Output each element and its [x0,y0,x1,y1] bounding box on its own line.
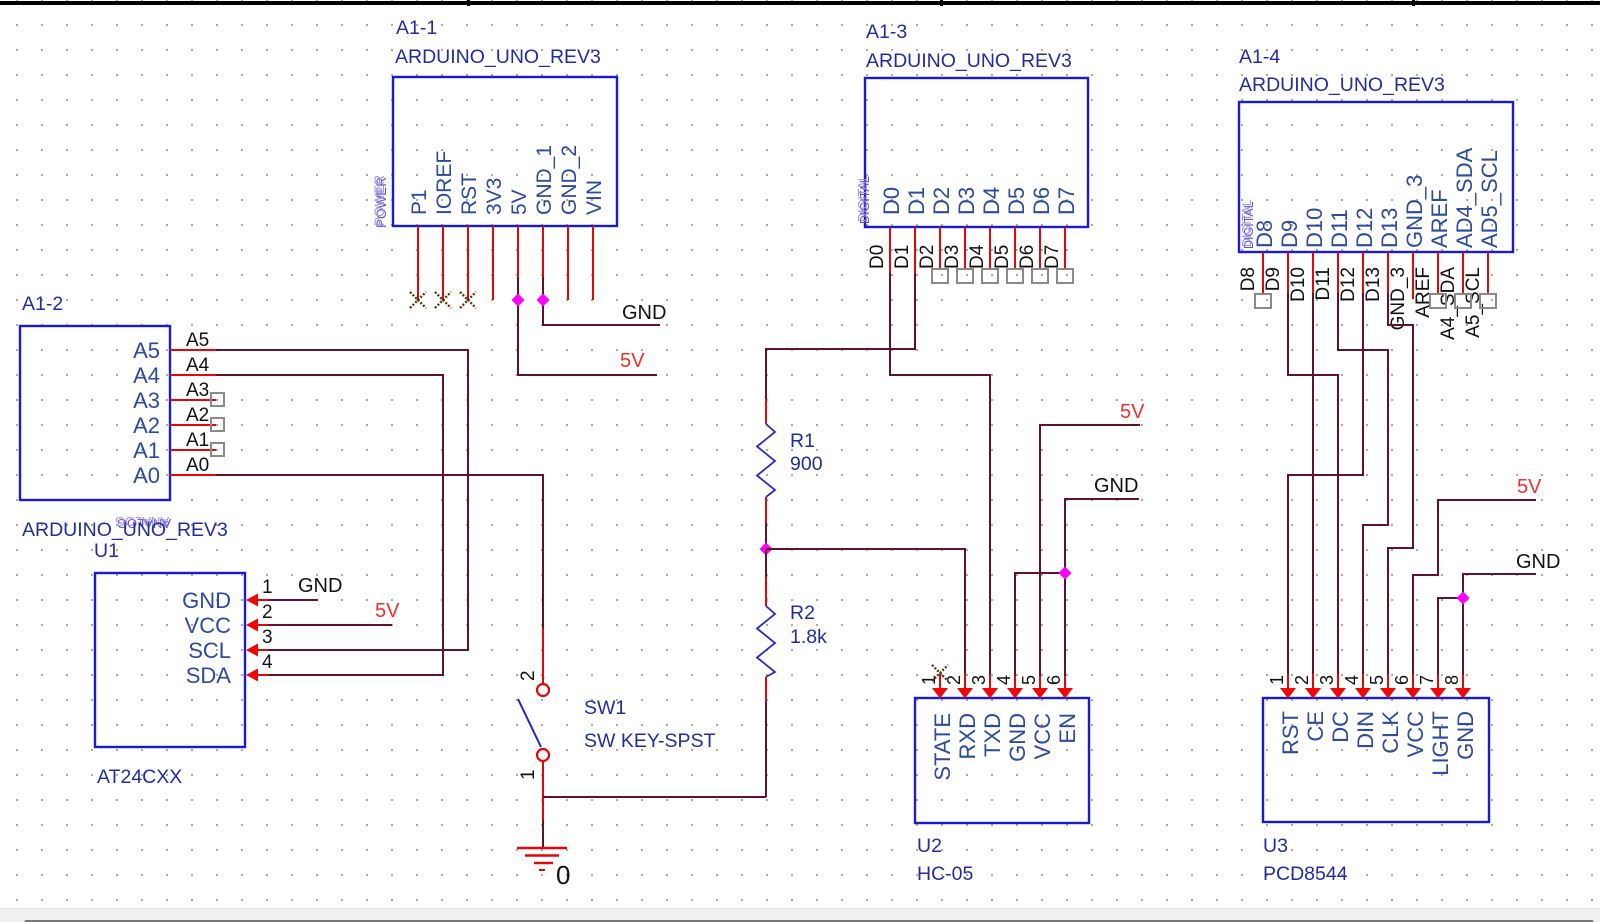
ground net label 0 [556,860,570,890]
svg-text:ARDUINO_UNO_REV3: ARDUINO_UNO_REV3 [866,50,1072,72]
svg-text:2: 2 [262,602,273,623]
A1-4 pin name AD5_SCL [1477,150,1502,248]
switch SW1 lever [518,699,541,747]
svg-text:D4: D4 [979,187,1004,215]
U3 value label PCD8544 [1263,863,1348,885]
U3 pin 5 stub and arrow [1380,674,1396,699]
A1-3 pin name D5 [1004,187,1029,215]
arduino block A1-1 reference label [396,17,437,39]
net label GND at U1 [298,575,342,597]
U2 pin number 6 [1044,675,1064,685]
A1-1 pin stub VIN [592,226,594,300]
A1-3 pin stub D5 [1014,227,1016,268]
svg-text:3V3: 3V3 [483,178,506,215]
svg-text:2: 2 [518,670,539,681]
junction on A1-1 GND_1 pin [537,294,550,307]
U2 pin 5 stub and arrow [1032,674,1048,699]
svg-text:SCL: SCL [188,638,231,663]
svg-text:4: 4 [994,675,1014,685]
svg-text:5V: 5V [1517,476,1542,498]
A1-4 pin stub AD5_SCL [1487,252,1489,293]
U2 pin name RXD [955,713,980,759]
svg-text:POWER: POWER [372,175,387,226]
wire 5V net to U3 VCC [1413,500,1536,676]
svg-text:D13: D13 [1363,267,1384,302]
U1 pin number 2 [262,602,273,623]
svg-text:U1: U1 [94,540,119,562]
svg-text:CLK: CLK [1378,711,1403,754]
A1-2 pin name A5 [133,338,160,363]
svg-text:D7: D7 [1054,187,1079,215]
svg-text:D11: D11 [1313,267,1334,300]
U3 pin name CE [1303,711,1328,742]
A1-4 pin stub D12 [1362,252,1364,293]
svg-text:DIN: DIN [1353,711,1378,749]
svg-text:A5: A5 [186,330,209,351]
net label GND at U2 [1094,475,1138,497]
U1 pin 3 arrow [246,644,268,657]
U3 pin name GND [1453,711,1478,760]
A1-4 pin name D11 [1327,209,1352,248]
U1 pin number 3 [262,627,273,648]
svg-text:D10: D10 [1302,208,1327,248]
A1-3 pin name D6 [1029,187,1054,215]
A1-1 pin name RST [458,173,481,215]
U2 pin 2 stub and arrow [957,674,973,699]
svg-text:D1: D1 [904,187,929,215]
svg-text:PCD8544: PCD8544 [1263,863,1348,885]
arduino block A1-3 reference label [866,21,907,43]
SW1 pin number 1 [518,769,539,780]
A1-1 pin stub GND_2 [567,226,569,300]
U3 pin number 3 [1317,675,1337,685]
A1-4 pin name D8 [1252,220,1277,248]
svg-text:D1: D1 [892,245,913,269]
svg-text:RST: RST [458,173,481,215]
A1-1 pin name GND_1 [533,145,556,215]
svg-text:ARDUINO_UNO_REV3: ARDUINO_UNO_REV3 [22,519,228,541]
svg-text:D12: D12 [1352,208,1377,248]
A1-4 pin name AREF [1427,189,1452,248]
svg-text:GND: GND [182,588,231,613]
U2 pin name VCC [1030,713,1055,760]
A1-3 pin stub D7 [1064,227,1066,268]
U2 pin name STATE [930,713,955,781]
U3 pin 4 stub and arrow [1355,674,1371,699]
U1 pin 4 arrow [246,669,268,682]
net label D10 below A1-4 [1288,267,1309,302]
A1-1 pin stub RST [467,226,469,300]
net label A4_SDA below A1-4 [1438,267,1459,340]
A1-3 pin name D7 [1054,187,1079,215]
A1-4 pin stub D13 [1387,252,1389,293]
A1-1 pin name 5V [508,189,531,215]
svg-text:GND: GND [622,302,666,324]
sheet top border bar [0,1,1600,5]
svg-text:D4: D4 [967,244,988,269]
svg-text:2: 2 [1292,675,1312,685]
resistor R2 bottom lead [765,677,767,797]
R1 value label 900 [790,453,823,475]
wire net D1 from A1-3 to R1 [766,273,915,399]
A1-4 pin stub D9 [1287,252,1289,293]
wire net A5 from A1-2 to U1 SCL [216,350,468,650]
svg-text:5: 5 [1367,675,1387,685]
U1 pin 2 arrow [246,619,268,632]
svg-text:R1: R1 [790,430,815,452]
svg-text:D6: D6 [1017,245,1038,269]
svg-text:AT24CXX: AT24CXX [97,766,182,788]
U3 pin 1 stub and arrow [1280,674,1296,699]
U3 pin number 1 [1267,675,1287,685]
U2 pin number 1 [919,675,939,685]
arduino module A1-1 body [393,77,617,226]
A1-1 pin stub IOREF [442,226,444,300]
svg-text:3: 3 [262,627,273,648]
wire from SW1 pin1 to ground and R2 [543,797,766,847]
A1-3 pin name D1 [904,187,929,215]
wire 5V net from A1-1 5V pin [518,300,657,375]
A1-2 pin name A0 [133,463,160,488]
unconnected square on pin AD4_SDA [1455,294,1471,308]
svg-text:GND: GND [1453,711,1478,760]
arduino block A1-4 reference label [1239,46,1280,68]
svg-text:A4: A4 [133,363,160,388]
A1-4 pin name AD4_SDA [1452,147,1477,248]
svg-text:5V: 5V [1120,401,1145,423]
svg-text:SW1: SW1 [584,697,626,719]
svg-text:GND_3: GND_3 [1388,267,1409,330]
svg-text:2: 2 [944,675,964,685]
svg-text:A5: A5 [133,338,160,363]
A1-2 pin stub A2 [170,424,216,426]
border zone tick 1 [467,0,470,6]
border zone tick 3 [1412,0,1415,6]
A1-3 pin stub D4 [989,227,991,268]
A1-4 pin name GND_3 [1402,175,1427,248]
svg-text:D7: D7 [1042,245,1063,269]
A1-2 pin name A4 [133,363,160,388]
SW1 value label SW KEY-SPST [584,730,716,752]
arduino block A1-1 value label ARDUINO_UNO_REV3 [395,46,601,68]
net label GND near A1-1 [622,302,666,324]
U1 pin name SCL [188,638,231,663]
U3 reference label [1263,835,1288,857]
A1-3 pin stub D3 [964,227,966,268]
A1-4 pin stub AREF [1437,252,1439,293]
A1-4 pin name D9 [1277,220,1302,248]
switch SW1 pin 2 contact [537,684,549,696]
switch SW1 pin 1 stub [542,762,544,797]
net label A1 [186,430,209,451]
wire net A0 from A1-2 to switch SW1 [216,475,543,628]
A1-2 pin stub A4 [170,374,216,376]
A1-2 pin name A2 [133,413,160,438]
U2 pin number 3 [969,675,989,685]
U2 pin 1 stub and arrow [932,674,948,699]
no-connect X on A1-1 pin P1 [410,292,426,308]
svg-text:A1: A1 [186,430,209,451]
net label A5_SCL below A1-4 [1463,267,1484,338]
net label 5V at U1 [375,600,400,622]
wire net D0 from A1-3 to U2 TXD [890,273,990,676]
arduino module A1-4 body [1239,102,1513,252]
U3 pin 3 stub and arrow [1330,674,1346,699]
U3 pin number 6 [1392,675,1412,685]
A1-3 pin name D3 [954,187,979,215]
U3 pin 8 stub and arrow [1455,674,1471,699]
A1-2 pin stub A3 [170,399,216,401]
net label D0 below A1-3 [867,245,888,269]
wire GND net to U3 GND and LIGHT [1438,574,1536,676]
svg-text:SDA: SDA [186,663,232,688]
A1-3 pin stub D1 [914,227,916,273]
svg-text:VIN: VIN [583,180,606,215]
svg-text:D13: D13 [1377,208,1402,248]
A1-2 pin stub A1 [170,449,216,451]
svg-text:AD4_SDA: AD4_SDA [1452,147,1477,248]
U2 pin name EN [1055,713,1080,744]
unconnected square on pin AD5_SCL [1480,294,1496,308]
wire GND stub at U1 pin 1 [268,599,318,601]
svg-text:5: 5 [1019,675,1039,685]
U3 pin number 8 [1442,675,1462,685]
resistor R1 top lead [765,399,767,424]
wire 5V stub at U1 pin 2 [268,624,392,626]
svg-text:RST: RST [1278,711,1303,755]
junction R1 R2 divider tap [760,543,773,556]
U1 pin name SDA [186,663,232,688]
arduino block A1-2 value label ARDUINO_UNO_REV3 [22,519,228,541]
svg-text:4: 4 [1342,675,1362,685]
lcd module U3 body [1263,698,1489,822]
svg-text:A3: A3 [133,388,160,413]
svg-text:5V: 5V [620,350,645,372]
U2 pin 4 stub and arrow [1007,674,1023,699]
svg-text:A1-1: A1-1 [396,17,437,39]
svg-text:STATE: STATE [930,713,955,781]
svg-text:6: 6 [1392,675,1412,685]
net label A3 [186,380,209,401]
svg-text:900: 900 [790,453,823,475]
unconnected square on pin A2 [211,418,224,431]
net label D6 below A1-3 [1017,245,1038,269]
svg-text:3: 3 [1317,675,1337,685]
no-connect X on U2 STATE pin [932,665,948,681]
net label D1 below A1-3 [892,245,913,269]
A1-3 pin name D2 [929,187,954,215]
R2 reference label [790,602,815,624]
A1-4 pin name D10 [1302,208,1327,248]
svg-text:GND: GND [1005,713,1030,762]
net label A0 [186,455,209,476]
net label 5V near A1-1 [620,350,645,372]
net label D9 below A1-4 [1263,267,1284,291]
net label D2 below A1-3 [917,245,938,269]
U3 pin name DC [1328,711,1353,743]
svg-text:RXD: RXD [955,713,980,759]
svg-text:VCC: VCC [1030,713,1055,760]
A1-4 pin stub D10 [1312,252,1314,293]
U2 pin number 5 [1019,675,1039,685]
arduino block A1-4 value label ARDUINO_UNO_REV3 [1239,74,1445,96]
svg-text:1: 1 [919,675,939,685]
svg-text:4: 4 [262,652,273,673]
svg-text:1.8k: 1.8k [790,626,827,648]
A1-2 pin name A1 [133,438,160,463]
eeprom U1 body [95,573,245,747]
U3 pin 6 stub and arrow [1405,674,1421,699]
SW1 reference label [584,697,626,719]
A1-3 DIGITAL section label [856,174,872,224]
R1 reference label [790,430,815,452]
svg-text:D0: D0 [879,187,904,215]
svg-text:A2: A2 [186,405,209,426]
wire net A4 from A1-2 to U1 SDA [216,375,443,675]
A1-3 pin name D4 [979,187,1004,215]
unconnected square on pin D6 [1032,269,1048,283]
A1-2 pin stub A0 [170,474,216,476]
U3 pin 2 stub and arrow [1305,674,1321,699]
A1-1 pin name IOREF [433,151,456,215]
svg-text:6: 6 [1044,675,1064,685]
A1-2 pin name A3 [133,388,160,413]
svg-text:VCC: VCC [1403,711,1428,758]
A1-3 pin stub D2 [939,227,941,268]
wire net D9 from A1-4 to U3 DC [1288,293,1338,676]
svg-text:EN: EN [1055,713,1080,744]
svg-text:D8: D8 [1252,220,1277,248]
U3 pin 7 stub and arrow [1430,674,1446,699]
A1-2 pin stub A5 [170,349,216,351]
net label D3 below A1-3 [942,245,963,269]
svg-text:GND: GND [1094,475,1138,497]
A1-1 POWER section label [372,175,389,228]
resistor R2 [757,606,775,677]
A1-4 pin stub AD4_SDA [1462,252,1464,293]
A1-3 pin name D0 [879,187,904,215]
svg-text:D2: D2 [929,187,954,215]
svg-text:3: 3 [969,675,989,685]
net label A4 [186,355,210,376]
svg-text:A4: A4 [186,355,210,376]
A1-1 pin name VIN [583,180,606,215]
unconnected square on pin D8 [1255,294,1271,308]
svg-text:TXD: TXD [980,713,1005,757]
U3 pin number 5 [1367,675,1387,685]
unconnected square on pin D3 [957,269,973,283]
U1 pin 1 arrow [246,594,268,607]
unconnected square on pin D2 [932,269,948,283]
U3 pin name CLK [1378,711,1403,754]
svg-text:IOREF: IOREF [433,151,456,215]
wire GND net from A1-1 GND_1 pin [543,300,660,325]
svg-text:D5: D5 [992,245,1013,269]
unconnected square on pin D5 [1007,269,1023,283]
svg-text:A3: A3 [186,380,209,401]
ground symbol 0 net [517,848,567,870]
svg-text:AREF: AREF [1427,189,1452,248]
svg-text:U3: U3 [1263,835,1288,857]
svg-text:A1-4: A1-4 [1239,46,1280,68]
svg-text:GND_2: GND_2 [558,145,581,215]
unconnected square on pin D7 [1057,269,1073,283]
net label GND_3 below A1-4 [1388,267,1409,330]
svg-text:CE: CE [1303,711,1328,742]
U3 pin number 4 [1342,675,1362,685]
svg-text:GND_1: GND_1 [533,145,556,215]
svg-text:5V: 5V [508,189,531,215]
svg-text:D3: D3 [942,245,963,269]
svg-text:VCC: VCC [185,613,232,638]
svg-text:0: 0 [556,860,570,890]
svg-text:D3: D3 [954,187,979,215]
svg-text:HC-05: HC-05 [917,863,974,885]
U2 pin number 2 [944,675,964,685]
wire net D13 from A1-4 to U3 CLK [1388,293,1413,676]
net label D5 below A1-3 [992,245,1013,269]
net label A5 [186,330,209,351]
A1-1 pin stub P1 [417,226,419,300]
no-connect X on A1-1 pin IOREF [435,292,451,308]
unconnected square on pin A3 [211,393,224,406]
svg-text:D9: D9 [1263,267,1284,291]
A1-1 pin stub 5V [517,226,519,300]
arduino block A1-3 value label ARDUINO_UNO_REV3 [866,50,1072,72]
net label D4 below A1-3 [967,244,988,269]
U3 pin name DIN [1353,711,1378,749]
svg-text:A0: A0 [186,455,209,476]
border zone tick 2 [940,0,943,6]
U3 pin name RST [1278,711,1303,755]
resistor R1 [757,424,775,497]
svg-text:ARDUINO_UNO_REV3: ARDUINO_UNO_REV3 [395,46,601,68]
net label GND at U3 [1516,551,1560,573]
svg-text:GND: GND [298,575,342,597]
svg-text:ARDUINO_UNO_REV3: ARDUINO_UNO_REV3 [1239,74,1445,96]
U2 pin name GND [1005,713,1030,762]
U2 pin 3 stub and arrow [982,674,998,699]
svg-text:SW KEY-SPST: SW KEY-SPST [584,730,716,752]
junction GND branch at U2 [1059,567,1072,580]
svg-text:A1: A1 [133,438,160,463]
net label D12 below A1-4 [1338,267,1359,302]
svg-text:A0: A0 [133,463,160,488]
svg-text:GND: GND [1516,551,1560,573]
A1-4 pin stub GND_3 [1412,252,1414,299]
A1-2 ANALOG section label (rotated) [115,514,171,531]
svg-text:7: 7 [1417,675,1437,685]
svg-text:P1: P1 [408,189,431,215]
svg-text:D8: D8 [1238,267,1259,291]
A1-1 pin stub GND_1 [542,226,544,300]
wire net D12 from A1-4 to U3 RST [1288,293,1363,676]
wire net D11 from A1-4 to U3 DIN [1338,293,1388,676]
junction on A1-1 5V pin [512,294,525,307]
svg-text:D0: D0 [867,245,888,269]
A1-4 pin stub D8 [1262,252,1264,293]
wire divider tap to U2 RXD [766,549,965,676]
switch SW1 pin 1 contact [537,749,549,761]
U2 pin 6 stub and arrow [1057,674,1073,699]
U1 pin name GND [182,588,231,613]
A1-4 pin name D13 [1377,208,1402,248]
A1-1 pin name 3V3 [483,178,506,215]
A1-3 pin stub D0 [889,227,891,273]
horizontal scrollbar [0,908,1600,922]
svg-text:A1-2: A1-2 [22,293,63,315]
arduino module A1-2 body [20,326,170,500]
